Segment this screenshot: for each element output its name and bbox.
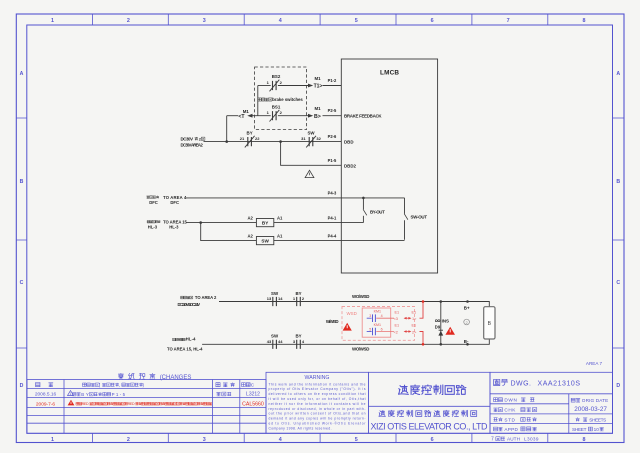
note circled 2 — [464, 319, 470, 325]
node junction B- — [466, 343, 469, 346]
switch BY-OUT — [363, 198, 385, 223]
svg-text:1: 1 — [51, 18, 54, 24]
svg-text:5: 5 — [355, 18, 358, 24]
svg-text:D9: D9 — [435, 325, 441, 330]
svg-text:RED: RED — [82, 402, 89, 406]
svg-text:D: D — [616, 383, 620, 389]
contact KM1 5-6 (blue) — [367, 327, 383, 335]
svg-text:PC: PC — [248, 382, 255, 387]
warning paragraph — [269, 382, 367, 430]
svg-text:DC30V AREA 2: DC30V AREA 2 — [181, 143, 204, 148]
brake switches label — [258, 97, 303, 102]
svg-text:1: 1 — [51, 437, 54, 443]
svg-text:DFC: DFC — [149, 200, 158, 205]
svg-text:HL-3: HL-3 — [169, 225, 179, 230]
svg-text:CHK: CHK — [504, 408, 516, 413]
wire to LMCB pin P1-2 — [323, 85, 342, 87]
svg-text:TO AREA 2: TO AREA 2 — [195, 295, 217, 300]
node junction on DC30V bus — [225, 140, 228, 143]
svg-text:P4-4: P4-4 — [328, 233, 337, 238]
svg-text:B+: B+ — [464, 305, 470, 310]
svg-text:WARNING: WARNING — [305, 375, 330, 381]
svg-text:A1: A1 — [277, 233, 283, 238]
contact KM1 3-4 (blue) — [367, 314, 383, 322]
svg-text:44: 44 — [278, 339, 283, 344]
change row 1 description — [68, 391, 126, 397]
svg-text:DBD2: DBD2 — [344, 163, 357, 168]
connector E1 pin 3 (red) — [394, 310, 400, 321]
svg-text:XAA21310S: XAA21310S — [538, 380, 581, 387]
svg-text:6: 6 — [431, 18, 434, 24]
svg-text:BY: BY — [295, 334, 301, 339]
connector E1 pin 2 (red) — [394, 324, 400, 335]
svg-text:1: 1 — [267, 110, 270, 115]
svg-text:˂3: ˂3 — [394, 317, 398, 321]
mating arrows bottom (red) — [404, 330, 412, 333]
zone letters left — [20, 71, 24, 389]
warning triangle red WSD — [343, 323, 352, 331]
wire BY coil to P4-1 — [274, 222, 364, 224]
relay KM1 inner box (red) — [362, 308, 391, 337]
change row 1 person — [216, 392, 220, 395]
svg-text:brake switches: brake switches — [272, 97, 303, 102]
svg-text:E1: E1 — [411, 310, 416, 314]
svg-text:7: 7 — [491, 437, 494, 443]
wire from riser to connector T left — [227, 115, 239, 117]
AUTH note bottom band — [491, 437, 539, 443]
sheet number cell — [572, 427, 604, 432]
svg-text:E1: E1 — [394, 310, 399, 314]
svg-text:1: 1 — [293, 296, 296, 301]
common vertical inside brake box — [257, 86, 259, 116]
svg-text:BY: BY — [81, 392, 89, 397]
svg-text:B˃: B˃ — [314, 114, 321, 120]
svg-text:43: 43 — [267, 339, 272, 344]
svg-text:2008.5.16: 2008.5.16 — [35, 391, 57, 397]
svg-text:8: 8 — [583, 437, 586, 443]
svg-text:14: 14 — [278, 296, 283, 301]
svg-text:property of Otis Elevator Com: property of Otis Elevator Company ("Otis… — [269, 387, 366, 391]
svg-text:BY: BY — [295, 291, 301, 296]
svg-text:P1-5: P1-5 — [112, 392, 126, 397]
svg-text:4: 4 — [279, 437, 282, 443]
svg-text:BY: BY — [247, 130, 253, 135]
svg-text:L3212: L3212 — [246, 392, 260, 398]
svg-text:SHEETS: SHEETS — [589, 417, 606, 422]
node junction P1-5 branch — [279, 140, 282, 143]
relay coil SW — [247, 233, 283, 244]
svg-text:out the prior written consent: out the prior written consent of Otis,an… — [269, 412, 366, 416]
net label TO AREA 4 DFC — [146, 195, 186, 205]
svg-text:This work and the information: This work and the information it contain… — [269, 382, 366, 386]
net label TO AREA 15 HL-4 — [167, 337, 203, 352]
battery B box — [484, 307, 495, 339]
zone row ticks left — [16, 118, 27, 348]
svg-text:22: 22 — [255, 136, 260, 141]
svg-text:BY-OUT: BY-OUT — [370, 209, 385, 214]
svg-text:WO/WSD: WO/WSD — [352, 347, 369, 352]
svg-text:A2: A2 — [247, 215, 253, 220]
changes table grid — [27, 380, 266, 434]
svg-text:E1: E1 — [411, 324, 416, 328]
wire connector to BS1 input — [253, 115, 271, 117]
connector M1 pin T right (arrow into plug) — [308, 76, 322, 90]
svg-text:KM1: KM1 — [374, 323, 381, 327]
standard row — [494, 417, 537, 422]
svg-text:AUTH: AUTH — [507, 437, 520, 442]
svg-text:8: 8 — [583, 18, 586, 24]
svg-text:˂2: ˂2 — [394, 330, 398, 334]
connector E1 pin 2b (red) — [411, 324, 417, 335]
wire BS2 output to M1 connector — [278, 85, 308, 87]
svg-text:,: , — [119, 382, 120, 387]
svg-text:Company 1998. All rights rese: Company 1998. All rights reserved. — [269, 426, 332, 430]
connector E1 pin 1 (red) — [411, 310, 417, 321]
svg-text:DFC: DFC — [170, 200, 179, 205]
svg-text:TO AREA 15, HL-4: TO AREA 15, HL-4 — [167, 346, 203, 351]
svg-text:1˃: 1˃ — [412, 317, 417, 321]
zone column ticks bottom — [92, 433, 547, 442]
svg-text:delivered to others on the exp: delivered to others on the express condi… — [269, 392, 366, 396]
svg-text:6: 6 — [381, 327, 383, 331]
contact SW 31-32 — [301, 130, 321, 147]
svg-text:2: 2 — [127, 437, 130, 443]
svg-text:ed to Otis. Unpublished: ed to Otis. Unpublished Work-©Otis Eleva… — [269, 422, 367, 426]
svg-text:SW-OUT: SW-OUT — [411, 214, 428, 219]
net label DC30V AREA 2 — [181, 136, 205, 147]
svg-text:4: 4 — [279, 18, 282, 24]
wire lower battery bus B- — [202, 339, 489, 344]
brake switch BS1 — [267, 104, 283, 121]
wire DC30V bus — [204, 141, 342, 143]
connector marks and label INS — [435, 318, 449, 323]
svg-text:2: 2 — [280, 110, 283, 115]
brake switch BS2 — [267, 74, 283, 91]
checked row — [493, 408, 536, 413]
wire BS1 output to M1 connector B — [278, 115, 308, 117]
svg-text:5: 5 — [355, 437, 358, 443]
connector M1 pin T left — [238, 109, 252, 120]
changes table title — [118, 373, 123, 379]
svg-text:(CHANGES: (CHANGES — [160, 375, 192, 381]
svg-text:(: ( — [99, 382, 101, 387]
zone letters right — [616, 71, 620, 389]
svg-text:P1-5: P1-5 — [328, 158, 337, 163]
svg-text:KM1: KM1 — [374, 309, 381, 313]
svg-text:DBD: DBD — [344, 140, 354, 145]
svg-text:P2-6: P2-6 — [328, 134, 337, 139]
riser wire from DC30V bus to connector T — [226, 116, 228, 142]
contact SW 43-44 — [267, 334, 283, 349]
svg-text:A: A — [20, 71, 24, 77]
svg-text:APPD: APPD — [504, 427, 518, 432]
zone column ticks top — [92, 14, 547, 25]
red wire KM1 bottom to connector — [376, 331, 394, 333]
svg-text:32: 32 — [316, 136, 321, 141]
svg-text:5: 5 — [369, 327, 371, 331]
svg-text:RED: RED — [128, 402, 135, 406]
svg-text:DWN: DWN — [504, 398, 517, 403]
wire upper battery bus B+ — [219, 302, 489, 307]
relay coil BY — [247, 215, 283, 226]
svg-text:2009-7-6: 2009-7-6 — [36, 401, 56, 407]
mating arrows top (red) — [404, 317, 412, 320]
diode D9 symbol — [438, 330, 443, 335]
svg-text:XIZI OTIS ELEVATOR CO., LTD: XIZI OTIS ELEVATOR CO., LTD — [371, 422, 489, 432]
contact BY 3-4 — [293, 334, 305, 349]
orig date cell — [571, 398, 608, 413]
switch SW-OUT — [404, 198, 427, 240]
svg-text:CAL5660: CAL5660 — [242, 402, 264, 408]
svg-text:DWG.: DWG. — [511, 380, 532, 387]
svg-text:HL-4: HL-4 — [186, 337, 196, 342]
svg-text:4: 4 — [381, 314, 383, 318]
svg-text:STD: STD — [504, 417, 515, 422]
svg-text:DC30V: DC30V — [181, 136, 194, 141]
svg-text:A2: A2 — [247, 233, 253, 238]
svg-text:SW: SW — [307, 130, 315, 135]
svg-text:DC110V&DC24V: DC110V&DC24V — [178, 302, 201, 307]
svg-text:BS1: BS1 — [272, 104, 281, 109]
title company box — [368, 372, 490, 433]
svg-text:D: D — [20, 383, 24, 389]
red stub wire to bottom tap — [420, 332, 424, 345]
warning text box — [266, 372, 368, 433]
contact BY 21-22 — [240, 130, 260, 147]
wire BS2 input from common vertical — [258, 85, 271, 87]
svg-text:AREA 7: AREA 7 — [586, 361, 603, 366]
svg-text:LMCB: LMCB — [380, 70, 399, 77]
changes table headers — [36, 382, 255, 387]
svg-text:2: 2 — [280, 80, 283, 85]
svg-text:3: 3 — [369, 314, 371, 318]
svg-text:31: 31 — [301, 136, 306, 141]
svg-text:3: 3 — [203, 18, 206, 24]
svg-text:BS2: BS2 — [272, 74, 281, 79]
svg-text:SHEET: SHEET — [572, 427, 587, 432]
svg-text:2: 2 — [127, 18, 130, 24]
red wire KM1 top to connector — [376, 317, 394, 319]
node junction BY-OUT tap — [362, 197, 365, 200]
svg-text:3: 3 — [203, 437, 206, 443]
svg-text:): ) — [143, 382, 145, 387]
svg-text:1: 1 — [267, 80, 270, 85]
svg-text:T1˃: T1˃ — [314, 84, 323, 90]
red stub wire to top tap — [420, 302, 424, 319]
approved row — [494, 427, 537, 432]
svg-text:C: C — [20, 280, 24, 286]
svg-text:B: B — [616, 179, 620, 185]
warning triangle red battery — [445, 327, 455, 335]
drawn by row — [494, 398, 535, 403]
svg-text:M1: M1 — [314, 106, 321, 111]
svg-text:2: 2 — [302, 296, 305, 301]
svg-text:W/WSD: W/WSD — [326, 319, 339, 324]
svg-text:BRAKE FEEDBACK: BRAKE FEEDBACK — [344, 114, 382, 119]
wire to LMCB pin P2-5 — [323, 115, 342, 117]
svg-text:6: 6 — [431, 437, 434, 443]
svg-text:neither it nor the informati: neither it nor the information it contai… — [269, 402, 366, 406]
branch wire down to SW coil — [201, 223, 257, 241]
wire HL-3 to BY coil — [187, 222, 257, 224]
brake switches dashed enclosure — [255, 67, 307, 130]
svg-text:P4-1: P4-1 — [328, 215, 337, 220]
contact SW 13-14 — [267, 291, 283, 306]
svg-text:C: C — [616, 280, 620, 286]
svg-text:21: 21 — [240, 136, 245, 141]
contact BY 1-2 — [293, 291, 305, 306]
svg-text:˂T: ˂T — [238, 114, 245, 120]
svg-text:demand it and any copies will: demand it and any copies will be promptl… — [269, 417, 366, 421]
change row 2 description (red) — [68, 400, 213, 406]
svg-text:3: 3 — [293, 339, 296, 344]
dwg info box grid — [490, 372, 613, 433]
warning triangle note (black) — [305, 170, 314, 177]
svg-text:10: 10 — [594, 427, 600, 432]
red node junction top — [422, 300, 425, 303]
svg-text:HL-3: HL-3 — [148, 225, 158, 230]
svg-text:ORIG DATE: ORIG DATE — [582, 398, 609, 403]
zone row ticks right — [613, 118, 625, 348]
svg-text:E1: E1 — [394, 324, 399, 328]
zone numbers bottom — [51, 437, 586, 443]
LMCB controller box U1 — [341, 59, 437, 273]
svg-text:A1: A1 — [277, 215, 283, 220]
zone numbers top — [51, 18, 586, 24]
sheets cell — [576, 417, 607, 422]
svg-text:M1: M1 — [314, 76, 321, 81]
svg-text:P2-5: P2-5 — [328, 108, 337, 113]
svg-text:WSD: WSD — [347, 311, 357, 316]
svg-text:A: A — [616, 71, 620, 77]
svg-text:7: 7 — [507, 18, 510, 24]
svg-text:13: 13 — [267, 296, 272, 301]
red node junction bottom — [422, 343, 425, 346]
svg-text:L3039: L3039 — [524, 437, 539, 442]
diode branch INS D9 — [440, 300, 443, 345]
net label TO AREA 2 DC110V — [178, 295, 218, 307]
svg-text:B: B — [20, 179, 24, 185]
svg-text:INS: INS — [442, 318, 449, 323]
svg-text:it will be used only for, or o: it will be used only for, or on behalf o… — [269, 397, 366, 401]
svg-text:P1-2: P1-2 — [328, 78, 337, 83]
dwg number — [494, 379, 500, 385]
svg-text:4: 4 — [302, 339, 305, 344]
branch wire to P1-5 — [281, 142, 342, 166]
net label TO AREA 15 HL-3 — [147, 220, 187, 230]
svg-text:2008-03-27: 2008-03-27 — [574, 406, 607, 413]
svg-text:BY: BY — [262, 221, 268, 226]
WSD module dashed enclosure (red) — [342, 307, 415, 341]
svg-text:WO/WSD: WO/WSD — [352, 294, 369, 299]
wire SW coil to P4-4 — [274, 240, 405, 242]
wire DFC to P4-3 — [186, 197, 405, 199]
node junction B+ — [466, 300, 469, 303]
connector M1 pin B right — [308, 106, 321, 120]
svg-text:reproduced or disclosed, in wh: reproduced or disclosed, in whole or in … — [269, 407, 366, 411]
svg-text:P4-3: P4-3 — [328, 191, 337, 196]
svg-text:2˃: 2˃ — [412, 330, 417, 334]
drawing title text — [399, 385, 409, 394]
svg-text:SW: SW — [261, 239, 269, 244]
company name chinese — [379, 410, 385, 416]
svg-text:1: 1 — [70, 392, 72, 396]
node junction SW branch — [199, 221, 202, 224]
